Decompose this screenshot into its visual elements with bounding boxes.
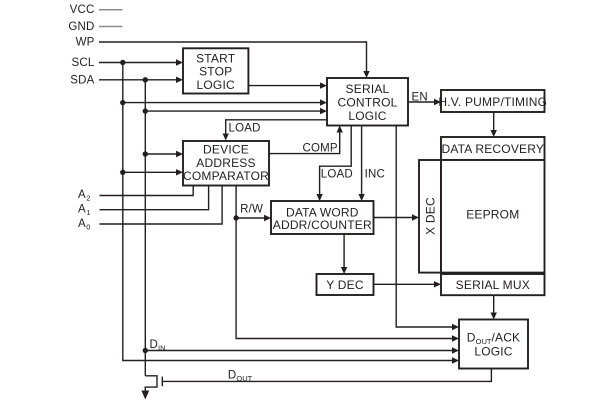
- label SDA: [70, 74, 94, 86]
- block SERIAL CONTROL LOGIC: [327, 78, 408, 126]
- svg-text:SERIAL: SERIAL: [346, 82, 390, 96]
- block START STOP LOGIC: [183, 48, 248, 93]
- svg-text:A: A: [78, 204, 86, 216]
- svg-text:INC: INC: [365, 169, 385, 181]
- block Y DEC: [317, 274, 374, 295]
- wire serial control to dout ack logic: [396, 126, 459, 331]
- svg-text:Y DEC: Y DEC: [326, 278, 364, 292]
- DOUT wire from DOUT ACK logic to transistor gate: [162, 369, 491, 382]
- junction SCL/comparator: [120, 170, 125, 175]
- junction R/W: [233, 215, 238, 220]
- label A1: [78, 204, 90, 218]
- SCL vertical bus wire: [123, 63, 459, 364]
- SDA wire into START STOP LOGIC: [99, 77, 183, 83]
- block EEPROM: [441, 160, 545, 273]
- junction SCL/serial: [120, 100, 125, 105]
- wire SERIAL MUX to DOUT ACK logic: [491, 295, 497, 319]
- svg-text:DEVICE: DEVICE: [203, 142, 249, 156]
- label A0: [78, 218, 90, 232]
- label COMP: [303, 143, 338, 155]
- svg-text:1: 1: [86, 208, 90, 217]
- A1 wire to comparator: [100, 186, 209, 210]
- svg-text:SDA: SDA: [70, 74, 94, 86]
- LOAD wire serial control to data word counter: [316, 126, 351, 202]
- label DIN: [150, 339, 166, 353]
- svg-text:D: D: [150, 339, 159, 351]
- junction SDA/comparator: [143, 151, 148, 156]
- svg-text:ADDR/COUNTER: ADDR/COUNTER: [273, 218, 372, 232]
- A2 wire to comparator: [100, 186, 194, 196]
- junction SCL tap: [120, 60, 125, 65]
- svg-text:R/W: R/W: [240, 204, 263, 216]
- svg-text:COMPARATOR: COMPARATOR: [183, 169, 269, 183]
- svg-text:EEPROM: EEPROM: [466, 207, 519, 221]
- wire Y DEC to SERIAL MUX: [374, 281, 442, 287]
- svg-text:WP: WP: [76, 37, 95, 49]
- svg-text:X DEC: X DEC: [423, 197, 437, 235]
- junction SDA tap: [143, 77, 148, 82]
- svg-text:H.V. PUMP/TIMING: H.V. PUMP/TIMING: [438, 95, 547, 109]
- block DATA RECOVERY: [441, 137, 545, 160]
- LOAD wire from SERIAL CONTROL LOGIC to DEVICE ADDRESS COMPARATOR: [223, 120, 328, 141]
- label A2: [78, 189, 90, 203]
- svg-text:ADDRESS: ADDRESS: [196, 156, 255, 170]
- svg-text:SERIAL MUX: SERIAL MUX: [456, 278, 530, 292]
- DIN wire to DOUT ACK logic: [145, 347, 459, 353]
- wire SDA branch to comparator: [145, 151, 183, 157]
- svg-text:GND: GND: [68, 21, 94, 33]
- wire HV pump to data recovery: [491, 112, 497, 137]
- svg-text:A: A: [78, 218, 86, 230]
- svg-text:LOGIC: LOGIC: [474, 344, 512, 358]
- svg-text:D: D: [228, 370, 237, 382]
- label SCL: [72, 57, 95, 69]
- label VCC: [70, 4, 95, 16]
- label WP: [76, 37, 95, 49]
- svg-text:DATA RECOVERY: DATA RECOVERY: [441, 142, 544, 156]
- svg-text:LOAD: LOAD: [229, 123, 261, 135]
- label R/W: [240, 204, 263, 216]
- R/W wire comparator down and to dout ack: [236, 186, 459, 342]
- label DOUT: [228, 370, 253, 384]
- svg-text:A: A: [78, 189, 86, 201]
- A0 wire to comparator: [100, 186, 223, 225]
- ground arrow at transistor source: [141, 391, 149, 400]
- wire SDA branch to SERIAL CONTROL LOGIC: [145, 108, 327, 114]
- label LOAD: [321, 169, 353, 181]
- svg-text:STOP: STOP: [199, 65, 232, 79]
- wire SCL branch to comparator: [123, 169, 183, 175]
- INC wire serial control to data word counter: [358, 126, 364, 202]
- GND stub wire: [99, 26, 123, 28]
- svg-text:EN: EN: [412, 92, 428, 104]
- junction DIN: [143, 348, 148, 353]
- svg-text:SCL: SCL: [72, 57, 95, 69]
- svg-text:START: START: [196, 51, 236, 65]
- transistor output MOSFET: [145, 376, 162, 392]
- label EN: [412, 92, 428, 104]
- block DOUT ACK LOGIC: [459, 320, 528, 369]
- label INC: [365, 169, 385, 181]
- svg-text:0: 0: [86, 223, 90, 232]
- block SERIAL MUX: [441, 274, 545, 295]
- svg-text:LOAD: LOAD: [321, 169, 353, 181]
- svg-text:OUT: OUT: [236, 374, 252, 383]
- svg-text:CONTROL: CONTROL: [337, 96, 397, 110]
- label LOAD: [229, 123, 261, 135]
- block HV PUMP TIMING: [438, 90, 547, 112]
- wire data word to Y DEC: [341, 234, 347, 274]
- block X DEC: [419, 160, 441, 273]
- wire data word to X DEC: [374, 214, 420, 220]
- svg-text:COMP: COMP: [303, 143, 338, 155]
- SCL wire into START STOP LOGIC: [99, 59, 183, 65]
- label GND: [68, 21, 94, 33]
- svg-text:2: 2: [86, 194, 90, 203]
- junction SDA/serial: [143, 108, 148, 113]
- wire START STOP to SERIAL CONTROL: [248, 82, 327, 88]
- svg-text:LOGIC: LOGIC: [197, 78, 235, 92]
- VCC stub wire: [99, 9, 123, 11]
- R/W wire to data word counter: [236, 215, 271, 221]
- block DEVICE ADDRESS COMPARATOR: [183, 141, 269, 186]
- EN wire serial control to HV pump: [408, 99, 441, 105]
- wire SCL branch to SERIAL CONTROL LOGIC: [123, 99, 327, 105]
- COMP wire comparator to serial control: [269, 126, 343, 154]
- block DATA WORD ADDR COUNTER: [271, 201, 374, 234]
- svg-text:VCC: VCC: [70, 4, 95, 16]
- WP wire to SERIAL CONTROL LOGIC top: [99, 42, 370, 78]
- SDA vertical bus wire: [144, 80, 146, 376]
- svg-text:LOGIC: LOGIC: [348, 109, 386, 123]
